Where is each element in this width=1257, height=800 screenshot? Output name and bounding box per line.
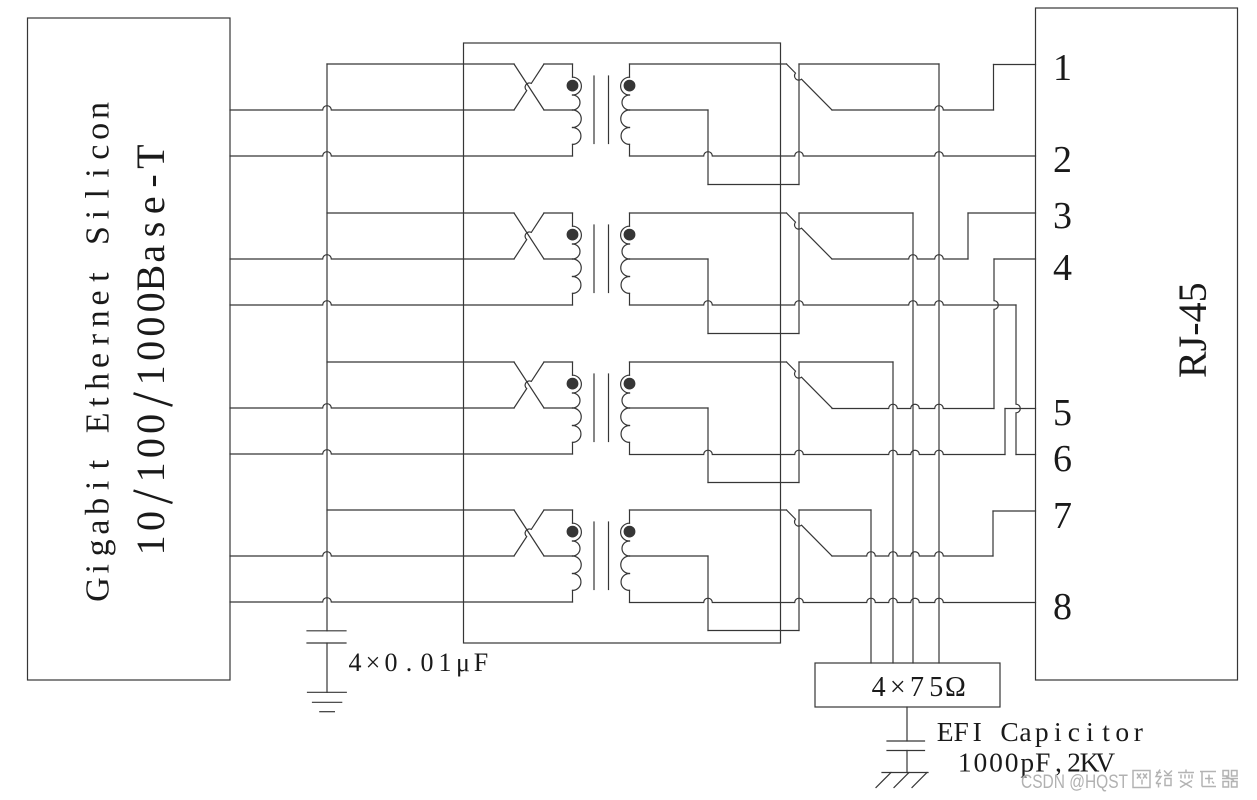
svg-text:8: 8 (1053, 586, 1072, 628)
svg-text:3: 3 (1053, 195, 1072, 237)
svg-text:6: 6 (1053, 438, 1072, 480)
svg-text:1: 1 (1053, 47, 1072, 89)
svg-text:2: 2 (1053, 139, 1072, 181)
svg-text:7: 7 (1053, 495, 1072, 537)
svg-text:4: 4 (1053, 247, 1072, 289)
svg-text:CSDN @HQST: CSDN @HQST (1021, 772, 1128, 793)
svg-text:5: 5 (1053, 392, 1072, 434)
svg-text:RJ-45: RJ-45 (1170, 282, 1215, 378)
svg-text:10 100 1000Base-T: 10 100 1000Base-T (128, 144, 173, 555)
